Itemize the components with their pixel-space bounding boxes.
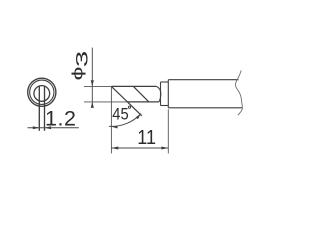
knife main diagonal <box>111 86 141 115</box>
blade edge left line with extension <box>38 86 40 131</box>
arrow left of 1.2 pointing right <box>33 126 40 129</box>
45 degree vertex extension line going down from tip <box>110 86 112 153</box>
phi3 bottom extension line <box>84 101 127 103</box>
shaft bottom edge <box>168 107 242 109</box>
11 dimension line <box>111 147 168 149</box>
shaft left edge <box>167 80 169 108</box>
phi3 dimension vertical line <box>91 48 93 108</box>
svg-text:11: 11 <box>137 127 156 149</box>
svg-text:3: 3 <box>74 51 92 68</box>
collar left edge <box>160 82 162 106</box>
degree symbol of 45 <box>128 106 130 108</box>
knife cut face second diagonal <box>133 86 149 102</box>
collar bottom edge <box>161 105 169 107</box>
blade top edge <box>111 85 156 87</box>
phi3 upper arrow pointing down <box>91 80 94 86</box>
11 dimension right extension line <box>167 109 169 153</box>
45 degree arc <box>109 114 141 127</box>
front view inner circle <box>34 86 50 102</box>
front view middle ring circle <box>30 80 54 104</box>
phi3 top extension line <box>84 85 111 87</box>
blade end cap arc <box>156 86 160 102</box>
shaft top edge <box>168 79 238 81</box>
svg-text:ϕ: ϕ <box>70 67 86 81</box>
collar top edge <box>161 81 169 83</box>
blade bottom edge <box>127 101 159 103</box>
dimension line 1.2 <box>28 127 79 129</box>
phi3 lower arrow pointing up <box>91 102 94 108</box>
shaft break squiggle <box>235 70 242 115</box>
svg-text:1.2: 1.2 <box>45 107 77 131</box>
45 arc lower arrow at vertical line <box>111 126 117 129</box>
svg-text:45: 45 <box>112 105 128 123</box>
arrow right of 1.2 pointing left <box>45 126 52 129</box>
45 arc upper arrow on diagonal <box>136 114 141 120</box>
blade edge right line with extension <box>44 86 46 131</box>
front view outer circle <box>28 78 56 106</box>
11 right arrow <box>161 147 168 150</box>
11 left arrow <box>111 147 118 150</box>
